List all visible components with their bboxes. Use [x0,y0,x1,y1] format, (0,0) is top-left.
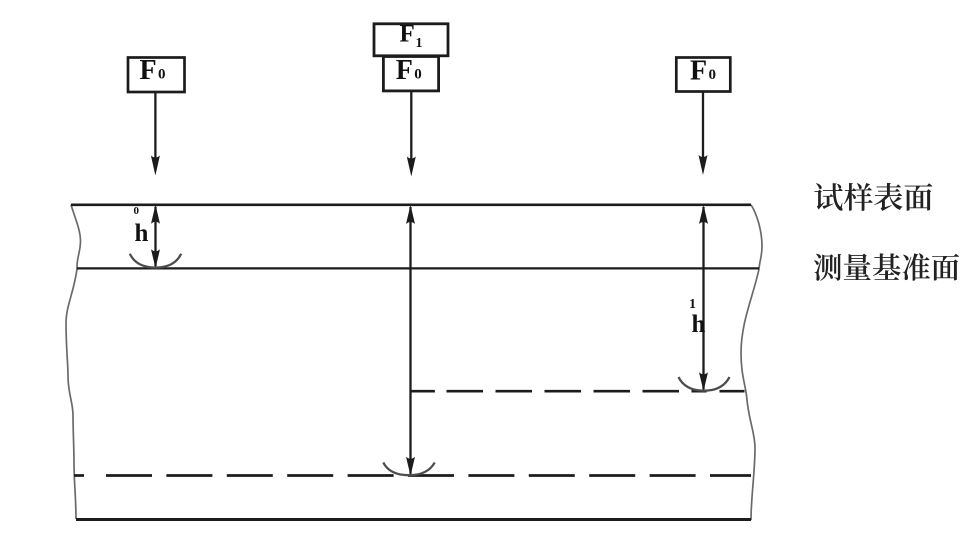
svg-text:0: 0 [134,205,140,217]
force arrow left (preload F0) [154,92,156,161]
svg-text:0: 0 [414,67,422,83]
force box F1 middle [374,24,448,56]
force box F0 right [676,58,730,92]
depth arrow middle (surface to full-load depth) [409,207,411,474]
svg-text:F: F [690,56,707,87]
svg-text:1: 1 [416,36,423,51]
measurement reference plane line [77,267,759,269]
svg-text:F: F [140,55,157,86]
svg-text:F: F [396,55,413,86]
specimen right torn edge [741,205,762,520]
depth arrow h0 (surface to datum) [154,207,156,266]
specimen bottom line [76,518,751,521]
svg-text:0: 0 [158,67,166,83]
lower dashed depth line (full load level) [74,474,751,477]
indentation cup right [679,377,730,391]
force box F0 middle (under F1) [383,57,438,91]
force arrow right (F0 after unload) [702,92,704,160]
depth arrow h1 (surface to final depth) [702,207,704,389]
specimen top surface line [71,203,751,206]
svg-text:h: h [692,311,706,338]
specimen left torn edge [66,205,81,519]
svg-text:0: 0 [709,67,717,83]
upper dashed depth line (h1 level) [410,390,745,393]
force arrow middle (F0+F1) [410,91,412,162]
label 试样表面 (specimen surface) [814,183,932,211]
force box F0 left [128,58,185,93]
label 测量基准面 (measurement datum plane) [814,253,959,281]
svg-text:1: 1 [689,297,696,312]
indentation cup middle [383,463,434,476]
indentation cup left [130,254,181,268]
svg-text:F: F [400,21,415,48]
svg-text:h: h [135,220,149,247]
